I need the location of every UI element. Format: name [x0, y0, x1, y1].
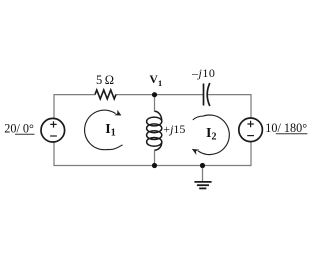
- mesh current I1 arc: [85, 110, 123, 150]
- inductor L coil loop3: [147, 131, 162, 140]
- wire left vertical upper: [53, 94, 55, 119]
- inductor L coil loop2: [147, 124, 162, 133]
- svg-text:10/ 180°: 10/ 180°: [265, 121, 307, 135]
- voltage source VS1 circle: [41, 118, 65, 142]
- svg-text:5 Ω: 5 Ω: [96, 73, 114, 87]
- inductor L top entry curve: [155, 111, 162, 121]
- resistor R 5ohm zigzag: [95, 90, 116, 99]
- wire top rail middle segment: [116, 94, 203, 96]
- node V1 dot: [152, 92, 157, 97]
- wire top rail left segment: [54, 94, 96, 96]
- voltage source VS1 angle underline: [15, 133, 35, 135]
- wire bottom rail: [54, 165, 251, 167]
- mesh current I1 arrowhead: [114, 110, 121, 116]
- voltage source VS2 minus sign: [247, 135, 254, 137]
- wire inductor bottom lead: [154, 150, 156, 166]
- voltage source VS2 angle underline: [276, 133, 308, 135]
- mesh current I2 arc: [193, 115, 230, 155]
- voltage source VS2 circle: [239, 118, 263, 142]
- wire left vertical lower: [53, 142, 55, 166]
- svg-text:V1: V1: [149, 72, 162, 88]
- ground symbol bar3: [199, 187, 206, 189]
- node ground junction dot: [200, 163, 205, 168]
- svg-text:I2: I2: [206, 126, 216, 142]
- wire right vertical lower: [250, 142, 252, 166]
- inductor L bottom exit curve: [155, 142, 162, 150]
- svg-text:–j10: –j10: [191, 66, 215, 80]
- wire top rail right segment: [207, 94, 252, 96]
- mesh current I2 arrowhead: [192, 149, 200, 155]
- svg-text:20/ 0°: 20/ 0°: [4, 122, 34, 136]
- ground symbol bar2: [197, 184, 209, 186]
- wire right vertical upper: [250, 94, 252, 118]
- voltage source VS1 plus sign: [50, 121, 56, 127]
- inductor L coil loop1: [147, 117, 162, 126]
- capacitor C right curved plate: [207, 83, 210, 106]
- voltage source VS1 minus sign: [50, 135, 57, 137]
- wire ground stub: [202, 166, 204, 182]
- node inductor-bottom dot: [152, 163, 157, 168]
- inductor L coil loop4: [147, 138, 162, 147]
- wire inductor top lead: [154, 95, 156, 112]
- svg-text:+j15: +j15: [163, 122, 185, 136]
- capacitor C left plate: [203, 84, 205, 106]
- svg-text:I1: I1: [105, 122, 115, 138]
- voltage source VS2 plus sign: [247, 121, 253, 127]
- ground symbol bar1: [194, 181, 211, 183]
